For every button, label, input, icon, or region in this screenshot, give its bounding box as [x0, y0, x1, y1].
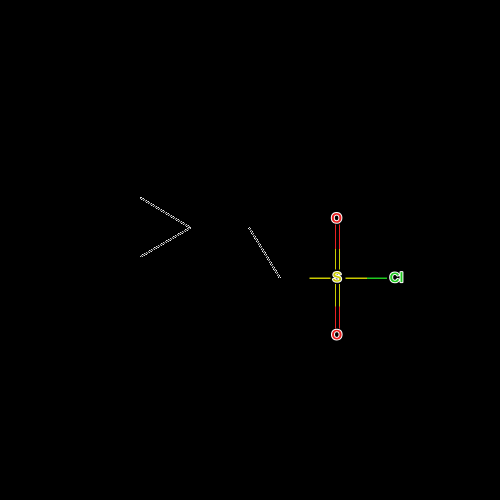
wire: S-Cl bond, chlorine half: [367, 278, 387, 279]
wire: S=O top double bond, oxygen half: [335, 225, 336, 250]
wire: CH2-CH2 bond: [248, 227, 281, 278]
wire: S=O top double bond, sulfur half: [335, 249, 336, 270]
wire: C-S bond (sulfur half): [309, 278, 330, 279]
wire: cyclopropane lower bond C1-C3: [140, 227, 191, 257]
wire: S-Cl bond, sulfur half: [346, 278, 367, 279]
node: chlorine atom label Cl: [390, 272, 402, 282]
wire: cyclopropane upper bond C2-C1: [140, 197, 191, 228]
node: sulfur atom label S: [333, 272, 341, 282]
node: oxygen atom label O (top): [332, 213, 342, 223]
node: oxygen atom label O (bottom): [332, 330, 342, 340]
wire: S=O bottom double bond, sulfur half: [335, 284, 336, 307]
wire: S=O bottom double bond, oxygen half: [335, 307, 336, 329]
